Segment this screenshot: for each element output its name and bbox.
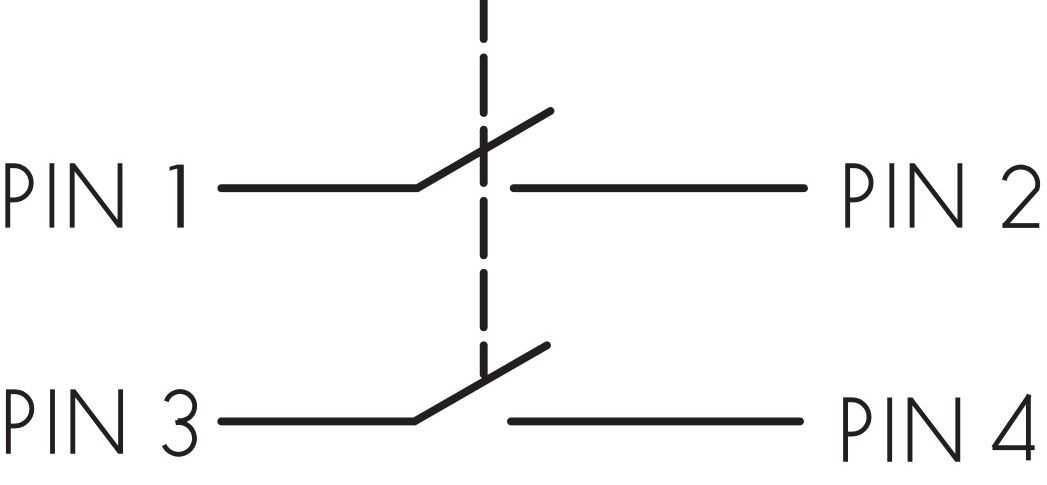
dash segment 5 — [480, 273, 488, 328]
digit 3 — [164, 392, 195, 455]
dashed gang line (vertical, x=483.6) — [480, 0, 488, 375]
label PIN 1 — [8, 163, 123, 227]
digit 1 — [170, 165, 184, 228]
dash segment 2 — [480, 57, 488, 113]
dash segment 3 — [480, 130, 488, 183]
label PIN 4 — [846, 398, 961, 462]
switch S2 pole: PIN3 wire and lever — [221, 345, 547, 421]
label PIN 2 — [848, 163, 963, 227]
digit 2 — [1002, 167, 1039, 225]
digit 4 — [993, 395, 1035, 461]
dash segment 4 — [480, 201, 488, 256]
wire PIN4 side — [511, 417, 800, 425]
dash segment 1 — [480, 0, 488, 39]
label PIN 3 — [8, 389, 123, 453]
switch S1 pole: PIN1 wire and lever — [221, 111, 550, 188]
wire PIN2 side — [514, 184, 804, 192]
dash segment 6 — [480, 345, 488, 374]
